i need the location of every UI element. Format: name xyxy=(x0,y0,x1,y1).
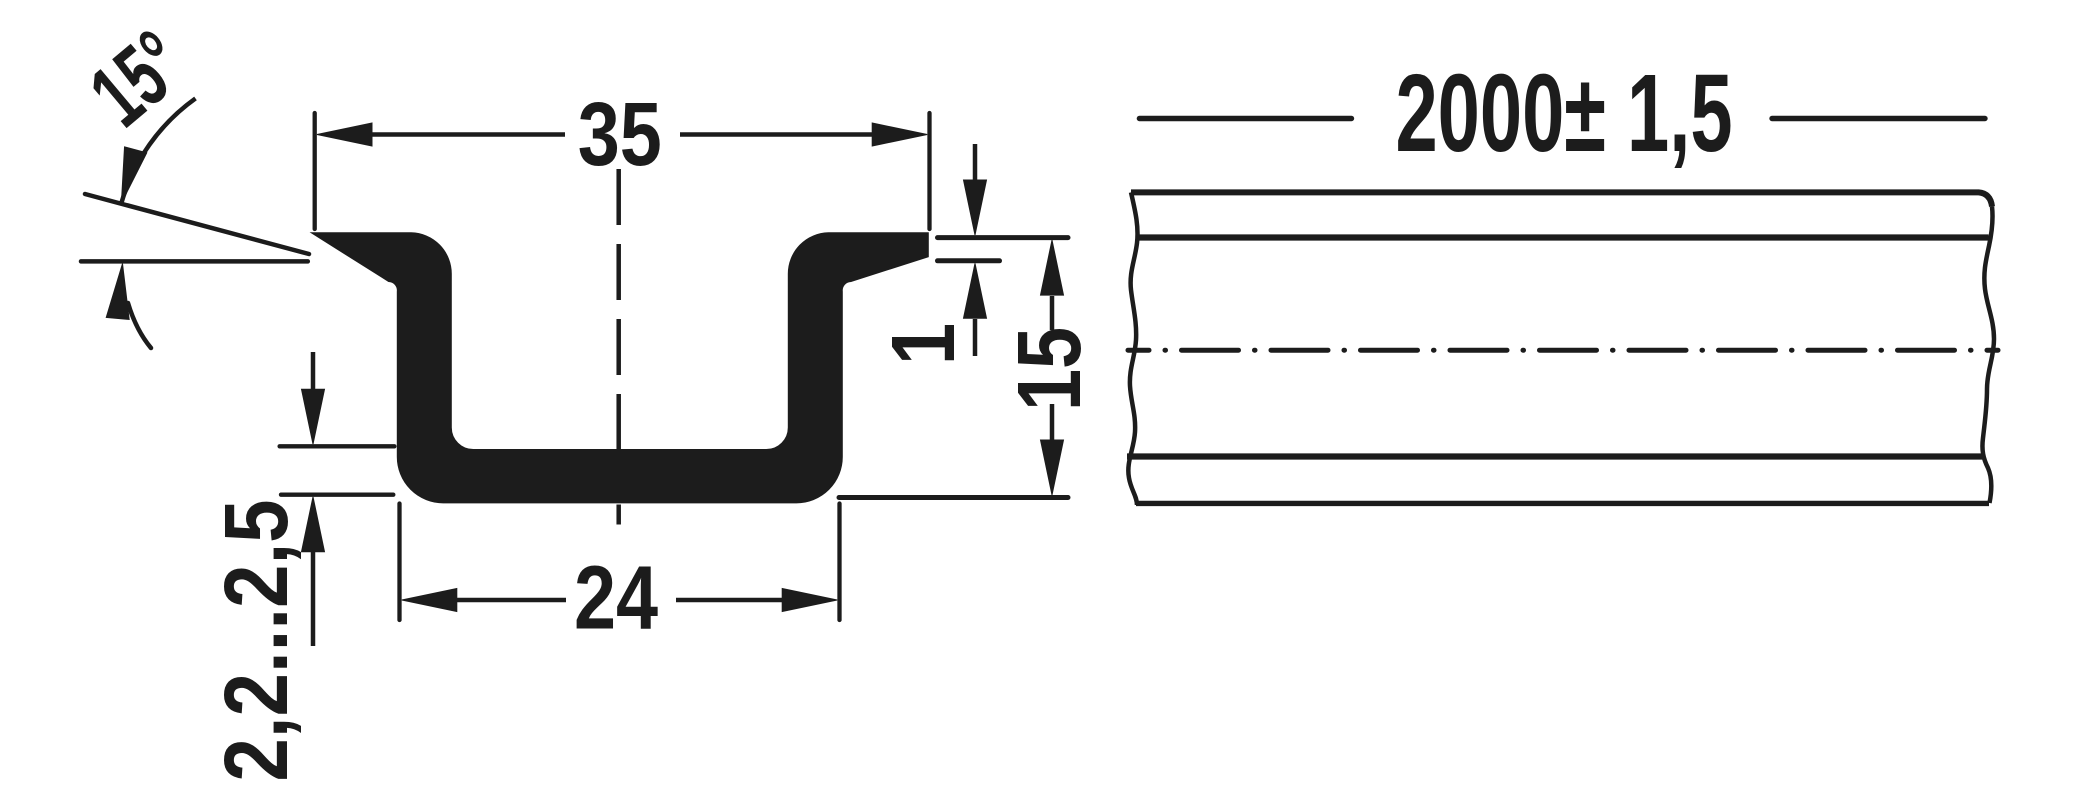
svg-text:2000± 1,5: 2000± 1,5 xyxy=(1395,52,1732,175)
svg-text:35: 35 xyxy=(578,84,662,185)
svg-text:24: 24 xyxy=(574,547,658,648)
svg-text:1: 1 xyxy=(873,323,974,365)
svg-text:15°: 15° xyxy=(72,12,205,146)
svg-text:2,2...2,5: 2,2...2,5 xyxy=(206,499,306,781)
svg-text:15: 15 xyxy=(999,327,1100,411)
